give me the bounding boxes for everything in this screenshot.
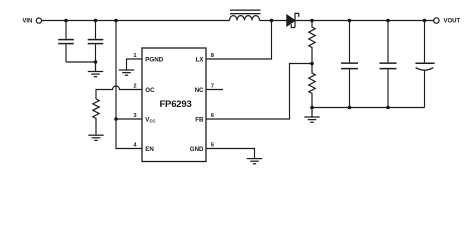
svg-text:7: 7 — [211, 84, 214, 90]
resistor R3 (OC) — [93, 99, 99, 135]
wire pin 1 PGND to ground — [127, 59, 143, 70]
svg-text:EN: EN — [145, 146, 154, 153]
svg-text:OC: OC — [145, 87, 155, 94]
capacitor C1 (input) — [58, 21, 74, 63]
capacitor C3 (output) — [341, 21, 358, 108]
svg-text:FB: FB — [195, 116, 204, 123]
capacitor C2 (input) — [88, 21, 104, 63]
wire diode cathode to VOUT terminal — [296, 20, 434, 22]
node junction dots — [64, 19, 426, 121]
svg-text:1: 1 — [133, 53, 137, 59]
pin 2 label OC — [133, 84, 155, 94]
svg-text:VCC: VCC — [145, 116, 155, 123]
svg-text:3: 3 — [133, 113, 137, 119]
wire joining C1 C2 bottoms — [66, 61, 96, 63]
ground (pin 5) — [247, 159, 262, 164]
wire inductor to diode anode — [260, 20, 287, 22]
wire pin 8 LX up to rail — [206, 21, 272, 60]
svg-text:NC: NC — [195, 87, 204, 94]
resistor R1 (divider top) — [309, 21, 315, 64]
svg-text:5: 5 — [211, 143, 215, 149]
wire OC pin to resistor, hop over bus — [96, 86, 142, 99]
svg-text:VIN: VIN — [22, 19, 32, 25]
svg-text:6: 6 — [211, 113, 215, 119]
capacitor C4 (output) — [380, 21, 397, 108]
svg-text:VOUT: VOUT — [444, 19, 461, 25]
ground (divider) — [304, 108, 319, 123]
wire pin 7 NC stub — [206, 89, 223, 91]
pin 4 label EN — [133, 143, 154, 153]
svg-text:8: 8 — [211, 53, 215, 59]
svg-text:4: 4 — [133, 143, 137, 149]
resistor R2 (divider bottom) — [309, 64, 315, 108]
wire Vcc tap to pin 3 — [116, 118, 142, 120]
pin 6 label FB — [195, 113, 215, 123]
pin 3 label Vcc — [133, 113, 155, 124]
wire pin 5 GND to ground — [206, 149, 255, 159]
terminal VOUT — [434, 18, 461, 25]
svg-text:LX: LX — [196, 56, 205, 63]
wire Vcc bus from VIN rail to EN pin — [116, 21, 142, 149]
ground (input caps) — [88, 62, 103, 77]
pin 8 label LX — [196, 53, 215, 63]
op-amp U1 FP6293 body — [142, 48, 206, 162]
inductor L1 — [230, 10, 261, 20]
svg-text:2: 2 — [133, 84, 136, 90]
terminal VIN — [22, 18, 41, 25]
wire top rail VIN to inductor — [42, 20, 230, 22]
svg-text:PGND: PGND — [145, 56, 163, 63]
svg-text:GND: GND — [190, 146, 204, 153]
diode D1 schottky — [287, 13, 299, 27]
ground (OC resistor) — [88, 135, 103, 140]
svg-text:FP6293: FP6293 — [159, 99, 191, 110]
wire output bottom rail — [312, 107, 425, 109]
pin 5 label GND — [190, 143, 215, 153]
pin 1 label PGND — [133, 53, 163, 63]
capacitor C5 (output, polarized) — [415, 21, 434, 108]
ground (PGND) — [119, 70, 134, 75]
pin 7 label NC — [195, 84, 214, 94]
wire pin 6 FB to divider node — [206, 64, 312, 120]
